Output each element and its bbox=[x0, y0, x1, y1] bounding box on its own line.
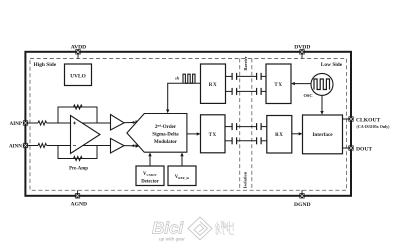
arrowhead into TX hs bbox=[197, 132, 201, 135]
resistor R1 (AINP input) bbox=[38, 121, 47, 125]
coupling wires bottom row 2 bbox=[225, 140, 267, 142]
svg-text:CLKOUT: CLKOUT bbox=[356, 117, 381, 123]
VREF_in block bbox=[168, 166, 196, 186]
watermark Bici logo bbox=[152, 219, 185, 242]
capacitor C7 bbox=[232, 137, 237, 144]
wire buffer A2 to modulator bbox=[124, 121, 136, 124]
svg-text:VCMOV: VCMOV bbox=[143, 172, 158, 177]
isolation barrier dashed line left bbox=[239, 59, 241, 191]
modulator U2 pentagon 2nd-Order Sigma-Delta Modulator bbox=[127, 114, 187, 153]
wire OSC to Interface bbox=[321, 95, 323, 112]
outer chip boundary box bbox=[25, 52, 351, 196]
capacitor C1 bbox=[232, 73, 237, 80]
resistor R2 (AINN input) bbox=[38, 143, 47, 147]
wire OSC to TX bbox=[293, 83, 311, 85]
arrowhead into Interface bbox=[299, 132, 303, 135]
svg-text:sh: sh bbox=[174, 75, 180, 80]
wire AINP to resistor bbox=[28, 122, 38, 124]
capacitor C2 bbox=[257, 73, 262, 80]
coupling wires top row 2 bbox=[226, 90, 267, 92]
svg-text:UVLO: UVLO bbox=[70, 73, 86, 79]
arrowhead up into modulator bbox=[148, 153, 151, 157]
pin AVDD bbox=[71, 44, 86, 58]
svg-text:Interface: Interface bbox=[312, 132, 333, 138]
RX block U3 (high side) bbox=[201, 64, 226, 103]
arrowhead up into modulator bbox=[180, 153, 183, 157]
clock waveform glyph bbox=[183, 74, 195, 83]
arrowhead into modulator + input bbox=[136, 120, 140, 123]
svg-text:DOUT: DOUT bbox=[356, 147, 372, 153]
buffer A2 (top) bbox=[111, 115, 125, 131]
svg-text:Barrier: Barrier bbox=[243, 56, 248, 70]
wire RX to Interface bbox=[292, 133, 301, 135]
wire pre-amp out top to buffer bbox=[82, 122, 111, 124]
TX block U5 (high side) bbox=[201, 115, 226, 153]
resistor R3 (top feedback) bbox=[74, 105, 83, 109]
arrowhead into TX bbox=[291, 82, 295, 85]
svg-text:DGND: DGND bbox=[294, 202, 310, 208]
svg-text:High Side: High Side bbox=[34, 62, 57, 68]
wire buffer A3 to modulator bbox=[124, 145, 136, 147]
svg-text:Modulator: Modulator bbox=[154, 140, 178, 145]
capacitor C5 bbox=[232, 123, 237, 130]
svg-text:up with gear: up with gear bbox=[159, 236, 185, 241]
sh clock wire from RX to modulator bbox=[168, 83, 201, 111]
svg-text:(CA-IS3105x Only): (CA-IS3105x Only) bbox=[357, 124, 391, 129]
oscillator OSC circle bbox=[303, 73, 333, 98]
arrowhead into modulator top bbox=[166, 110, 169, 114]
wire modulator to TX high side bbox=[187, 133, 199, 135]
junction dot bottom bbox=[132, 145, 134, 147]
Interface block U7 bbox=[303, 115, 343, 154]
svg-text:Detector: Detector bbox=[141, 180, 159, 185]
wire resistor to pre-amp + input bbox=[47, 122, 71, 124]
svg-text:DVDD: DVDD bbox=[294, 44, 310, 50]
svg-text:Low Side: Low Side bbox=[321, 62, 343, 68]
wire VREF to modulator bbox=[181, 155, 183, 167]
pin CLKOUT bbox=[348, 116, 390, 129]
pin DOUT bbox=[348, 145, 372, 152]
arrowhead into modulator - input bbox=[136, 144, 140, 148]
pin DVDD bbox=[294, 44, 310, 58]
TX block U4 (low side) bbox=[266, 64, 291, 104]
svg-text:RX: RX bbox=[275, 133, 283, 138]
coupling wires bottom row 1 bbox=[225, 126, 267, 128]
coupling wires top row 1 bbox=[226, 75, 267, 77]
wire Interface to CLKOUT bbox=[343, 118, 349, 120]
svg-text:Isolation: Isolation bbox=[242, 171, 247, 188]
wire AINN to resistor bbox=[28, 145, 38, 147]
capacitor C4 bbox=[257, 88, 262, 95]
buffer A3 (bottom) bbox=[111, 138, 125, 153]
high/low side dashed boundary box bbox=[30, 59, 347, 191]
svg-text:AVDD: AVDD bbox=[71, 44, 86, 50]
resistor R4 (bottom feedback) bbox=[74, 156, 83, 160]
wire VCMOV to modulator bbox=[149, 155, 151, 167]
watermark diamond glyph bbox=[188, 217, 212, 240]
watermark chinese characters bbox=[215, 221, 234, 236]
svg-text:OSC: OSC bbox=[303, 93, 312, 98]
svg-text:Pre-Amp: Pre-Amp bbox=[69, 167, 88, 172]
junction dot top bbox=[132, 121, 134, 123]
svg-text:AINN: AINN bbox=[9, 144, 22, 150]
svg-text:TX: TX bbox=[274, 83, 282, 88]
capacitor C6 bbox=[257, 123, 262, 130]
capacitor C8 bbox=[257, 137, 262, 144]
svg-text:AGND: AGND bbox=[71, 202, 87, 208]
svg-text:Sigma-Delta: Sigma-Delta bbox=[152, 133, 179, 138]
VCMOV detector block bbox=[136, 166, 164, 186]
svg-text:Bici: Bici bbox=[152, 219, 184, 238]
pin AGND bbox=[71, 190, 87, 207]
wire pre-amp out bottom to buffer bbox=[83, 145, 111, 147]
svg-text:AINP: AINP bbox=[10, 121, 22, 127]
arrowhead into Interface top bbox=[320, 111, 323, 115]
svg-text:RX: RX bbox=[209, 83, 217, 88]
pin AINP bbox=[10, 120, 29, 127]
isolation barrier dashed line right bbox=[251, 59, 253, 191]
wire Interface to DOUT bbox=[343, 147, 349, 149]
UVLO block U1 bbox=[65, 64, 92, 86]
feedback loop top wire bbox=[58, 107, 97, 123]
capacitor C3 bbox=[232, 88, 237, 95]
pin DGND bbox=[294, 190, 310, 208]
RX block U6 (low side) bbox=[267, 116, 292, 154]
svg-text:TX: TX bbox=[209, 133, 217, 138]
svg-text:VREF_in: VREF_in bbox=[175, 175, 190, 180]
pin AINN bbox=[9, 143, 28, 150]
wire resistor to pre-amp - input bbox=[47, 145, 71, 147]
op-amp A1 pre-amp triangle bbox=[71, 116, 101, 154]
feedback loop bottom wire bbox=[58, 146, 97, 159]
